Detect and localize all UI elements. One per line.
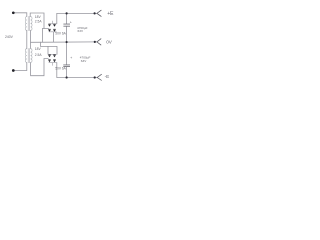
wire bridge2 minus bbox=[56, 63, 58, 78]
bridge BR2 diodes bbox=[48, 55, 56, 63]
wire bridge1 plus bbox=[56, 13, 58, 23]
svg-text:50V 6A: 50V 6A bbox=[55, 32, 66, 36]
bridge rectifier BR1 frame bbox=[49, 21, 57, 32]
svg-text:2.5A: 2.5A bbox=[35, 20, 43, 24]
capacitor C2 leads bbox=[66, 42, 68, 77]
svg-text:+E: +E bbox=[107, 11, 114, 17]
svg-text:0V: 0V bbox=[106, 40, 113, 45]
node -V rail bbox=[57, 77, 97, 79]
node 0V rail bbox=[31, 41, 97, 43]
svg-text:18V: 18V bbox=[35, 47, 42, 51]
bridge rectifier BR2 frame bbox=[49, 54, 57, 65]
wire secondary2 bottom loop bbox=[31, 59, 44, 76]
svg-text:240V: 240V bbox=[5, 35, 14, 39]
wire secondary1 bottom bbox=[30, 30, 32, 42]
wire mains bottom bbox=[13, 63, 26, 71]
svg-text:-E: -E bbox=[105, 74, 110, 79]
svg-text:50V 6A: 50V 6A bbox=[55, 66, 66, 70]
svg-text:2.5A: 2.5A bbox=[35, 53, 43, 57]
node junction +V out bbox=[94, 12, 96, 14]
wire mains top bbox=[13, 13, 26, 17]
wire bridge2 AC1 stub bbox=[44, 58, 48, 60]
transformer T1 core bbox=[28, 16, 29, 31]
node terminal mains top bbox=[12, 11, 15, 14]
svg-text:63V: 63V bbox=[81, 59, 87, 63]
node terminal mains bottom bbox=[12, 69, 15, 72]
node junction C2 bottom bbox=[66, 76, 68, 78]
wire secondary1 top to bridge1 bbox=[30, 13, 44, 29]
terminal fork +V bbox=[97, 10, 102, 17]
svg-text:+: + bbox=[70, 56, 72, 60]
wire bridge1 minus bbox=[53, 32, 55, 42]
wire secondary2 top bbox=[30, 42, 32, 48]
svg-text:+: + bbox=[70, 21, 72, 25]
node junction C1 top bbox=[66, 12, 68, 14]
node junction 0V out bbox=[94, 41, 96, 43]
transformer T1 secondary coil bbox=[31, 17, 32, 31]
node junction -V out bbox=[94, 76, 96, 78]
svg-text:63V: 63V bbox=[78, 29, 84, 33]
terminal fork -V bbox=[97, 74, 102, 80]
terminal fork 0V bbox=[97, 39, 101, 46]
capacitor C1 plates bbox=[63, 24, 70, 26]
transformer T2 core bbox=[28, 48, 29, 63]
wire bridge1 AC1 horizontal bbox=[43, 28, 49, 30]
wire primary series link bbox=[26, 30, 28, 48]
transformer T2 primary coil bbox=[25, 49, 26, 63]
transformer T1 primary coil bbox=[25, 17, 26, 31]
wire AC return vertical bbox=[42, 29, 44, 43]
transformer T2 secondary coil bbox=[31, 49, 32, 63]
svg-text:18V: 18V bbox=[35, 15, 42, 19]
capacitor C1 leads bbox=[66, 13, 68, 42]
capacitor C2 plates bbox=[63, 65, 70, 67]
node +V rail bbox=[57, 12, 97, 14]
wire bridge2 top loop bbox=[40, 42, 57, 54]
node junction C1 bottom bbox=[66, 41, 68, 43]
bridge BR1 diodes bbox=[48, 24, 56, 32]
